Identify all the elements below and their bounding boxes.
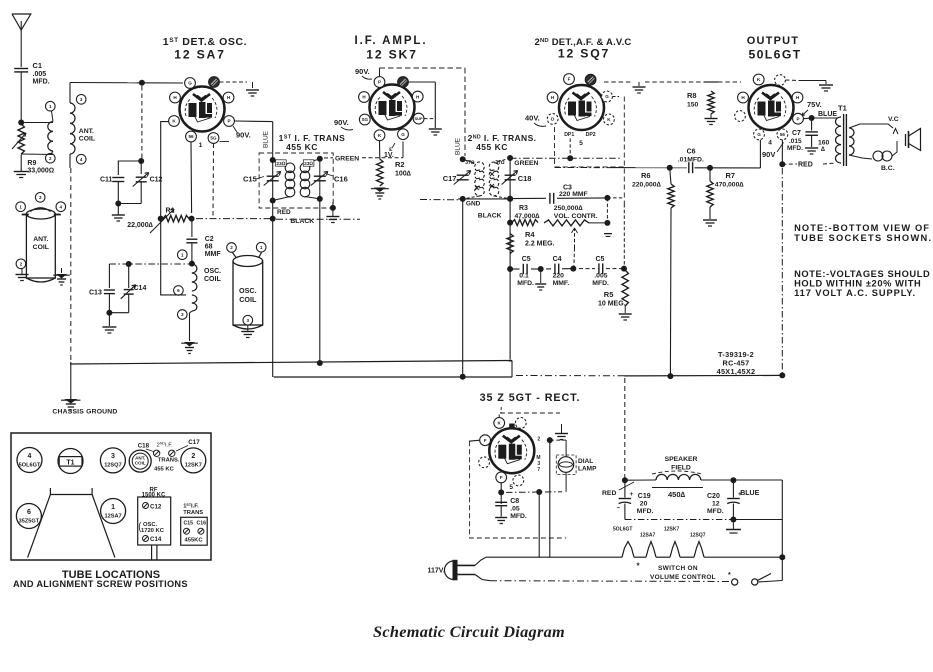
wire (GREEN dash) <box>324 142 403 159</box>
label R1 <box>127 208 174 230</box>
capacitor C6 <box>667 162 693 173</box>
node 1 (ant coil) <box>46 101 56 121</box>
ground (osc canister) <box>241 332 254 338</box>
svg-text:220: 220 <box>553 273 565 280</box>
svg-text:AND ALIGNMENT SCREW POSITIONS: AND ALIGNMENT SCREW POSITIONS <box>13 579 188 589</box>
T1 primary <box>836 117 842 163</box>
title 1st det <box>163 36 247 62</box>
wire <box>272 122 274 377</box>
speaker cone <box>906 129 921 151</box>
svg-text:220,000∆: 220,000∆ <box>632 182 662 189</box>
svg-text:MFD.: MFD. <box>707 508 724 515</box>
node (1st IF sec bottom) <box>317 159 323 202</box>
pin DP (12SQ7 left) <box>547 114 558 125</box>
title output <box>747 35 802 62</box>
svg-text:COIL: COIL <box>79 136 95 143</box>
wire (avc right dash) <box>607 198 624 223</box>
pin F (35Z5GT bottom) <box>496 472 507 483</box>
svg-text:3: 3 <box>111 453 115 460</box>
svg-text:GREEN: GREEN <box>335 156 359 163</box>
pin 3 (canister) <box>35 193 45 203</box>
socket 3 12SQ7 <box>100 448 125 473</box>
svg-text:455 KC: 455 KC <box>286 142 318 152</box>
svg-text:T1: T1 <box>838 104 847 113</box>
label 23ohm right <box>303 160 314 167</box>
screw C17 <box>169 450 175 456</box>
wire (grid up) <box>759 140 761 168</box>
svg-text:40V.: 40V. <box>525 114 540 123</box>
svg-text:75V.: 75V. <box>807 100 822 109</box>
svg-text:FIELD: FIELD <box>671 465 691 472</box>
svg-text:90V: 90V <box>762 150 775 159</box>
pin P (12SA7) <box>224 116 235 127</box>
svg-text:.005: .005 <box>33 71 47 78</box>
svg-text:C19: C19 <box>638 493 651 500</box>
svg-text:BLUE: BLUE <box>740 490 759 497</box>
capacitor C16 (trimmer) <box>311 172 348 186</box>
capacitor C12 (trimmer) <box>133 173 163 204</box>
svg-text:R4: R4 <box>525 230 535 239</box>
label fil 12SK7 <box>664 527 680 533</box>
wire <box>161 213 186 295</box>
label C18 loc <box>138 443 154 452</box>
wire (field feed dash) <box>622 378 628 483</box>
svg-text:SPEAKER: SPEAKER <box>665 456 698 463</box>
label C2 <box>205 236 222 258</box>
svg-text:3: 3 <box>39 195 42 200</box>
label B.C. <box>881 165 895 172</box>
capacitor C15 (trimmer) <box>243 172 281 186</box>
1st IF secondary <box>300 159 320 199</box>
pin F (35Z5GT left) <box>480 435 491 446</box>
svg-text:R8: R8 <box>687 91 697 100</box>
svg-text:12SA7: 12SA7 <box>640 533 656 539</box>
label R3 <box>515 205 541 220</box>
pin D2 (35Z5GT) <box>479 457 490 468</box>
svg-text:2NDI.F.: 2NDI.F. <box>157 442 174 449</box>
label C5a <box>517 256 534 287</box>
wire <box>106 310 128 326</box>
pin K (12SK7) <box>374 130 385 141</box>
svg-text:F: F <box>500 475 503 480</box>
svg-text:R7: R7 <box>726 171 736 180</box>
ground (canister left) <box>16 269 29 281</box>
label ANT. COIL <box>79 128 95 143</box>
svg-text:5: 5 <box>579 140 583 147</box>
svg-text:1: 1 <box>19 204 22 209</box>
wire <box>498 483 504 504</box>
wire (green to DP1) <box>510 157 568 159</box>
svg-text:47,000∆: 47,000∆ <box>515 213 541 220</box>
svg-text:∆: ∆ <box>821 146 825 153</box>
rect shield box (dashed) <box>470 407 566 538</box>
svg-text:1: 1 <box>181 252 184 257</box>
svg-text:220 MMF: 220 MMF <box>559 191 588 198</box>
svg-text:6: 6 <box>177 288 180 293</box>
pin H (50L6GT left) <box>738 92 749 103</box>
label 1st IF trans <box>279 133 346 152</box>
label 90V (12SA7) <box>220 126 251 142</box>
capacitor C19 <box>617 480 634 519</box>
wire (lamp dash) <box>506 489 562 495</box>
speaker field coil <box>652 471 702 480</box>
svg-text:C14: C14 <box>134 285 147 292</box>
wire <box>190 311 192 341</box>
pin G (12SK7) <box>398 129 409 140</box>
caption TUBE LOCATIONS <box>13 569 188 589</box>
speaker outline <box>28 488 115 558</box>
svg-text:2: 2 <box>49 156 52 161</box>
capacitor C20 <box>727 480 742 519</box>
svg-text:C2: C2 <box>205 236 214 243</box>
oscillator coil <box>192 264 197 311</box>
node 3 (ant coil) <box>76 95 86 105</box>
pin H (12SK7 right) <box>412 91 423 102</box>
node (AVC junction) <box>270 216 276 222</box>
wire <box>69 154 71 168</box>
label C20 <box>707 493 724 515</box>
label C5b <box>592 256 609 287</box>
svg-text:C1: C1 <box>33 61 43 70</box>
svg-text:7: 7 <box>537 467 540 473</box>
svg-text:1: 1 <box>49 104 52 109</box>
label 37ohm left <box>465 160 479 190</box>
pin 1 (osc canister) <box>256 242 266 252</box>
B- rail <box>274 374 512 380</box>
svg-text:BLACK: BLACK <box>478 213 502 220</box>
label C7 <box>787 130 803 152</box>
label fil 50L6GT <box>613 527 632 533</box>
label 37ohm right <box>490 160 505 188</box>
svg-text:4: 4 <box>80 157 83 162</box>
svg-text:68: 68 <box>205 244 213 251</box>
wire (rail dash mid) <box>516 375 624 377</box>
capacitor C8 <box>495 502 507 516</box>
label OSC 1720KC <box>139 522 164 534</box>
ground (R7) <box>703 207 717 226</box>
ground (12SA7 Sn) <box>246 90 259 96</box>
label C1 <box>33 61 50 86</box>
svg-text:C17: C17 <box>443 174 457 183</box>
resistor R8 <box>704 82 718 114</box>
label 90V (output) <box>762 143 784 160</box>
svg-text:R2: R2 <box>395 160 405 169</box>
pin H (12SA7 left) <box>170 92 181 103</box>
svg-text:T1: T1 <box>66 460 74 467</box>
wire (to C16 gnd) <box>320 199 336 216</box>
tube U1 12SA7 <box>180 87 225 132</box>
resistor R6 <box>668 168 674 208</box>
filament 50L6GT <box>622 542 646 558</box>
svg-text:2.2 MEG.: 2.2 MEG. <box>525 241 555 248</box>
wire <box>549 440 551 557</box>
svg-text:45X1,45X2: 45X1,45X2 <box>717 367 756 376</box>
svg-text:23Ω: 23Ω <box>276 161 285 167</box>
wire <box>695 165 761 171</box>
svg-text:G: G <box>401 132 405 137</box>
svg-text:C6: C6 <box>687 149 696 156</box>
ground (50L6GT K) <box>819 85 833 91</box>
resistor R1 <box>150 209 195 233</box>
capacitor C7 <box>805 118 818 147</box>
tube locations box <box>11 433 211 560</box>
resistor R2 <box>377 159 383 186</box>
wire <box>247 326 249 332</box>
svg-text:C18: C18 <box>138 443 150 450</box>
asterisk <box>636 562 640 571</box>
svg-text:COIL: COIL <box>204 276 221 283</box>
label BLACK (1st IF) <box>290 218 314 225</box>
wire (5G dash) <box>212 144 215 217</box>
svg-text:37Ω: 37Ω <box>465 160 475 166</box>
svg-text:ANT.: ANT. <box>33 236 48 243</box>
label 1 (12SA7) <box>199 142 203 149</box>
svg-text:37Ω: 37Ω <box>495 160 505 166</box>
svg-text:*: * <box>728 572 731 579</box>
svg-text:.01MFD.: .01MFD. <box>678 157 704 164</box>
wire (padder dash-dot) <box>109 261 194 267</box>
label R2 <box>395 160 412 178</box>
svg-text:56: 56 <box>780 132 786 137</box>
svg-text:I.F. AMPL.: I.F. AMPL. <box>355 35 428 47</box>
svg-text:10 MEG.: 10 MEG. <box>598 301 626 308</box>
svg-text:V.C: V.C <box>888 116 899 123</box>
label R9 <box>27 160 54 175</box>
svg-text:C16: C16 <box>197 521 207 527</box>
node (1st IF sec top) <box>317 156 323 162</box>
svg-text:4: 4 <box>768 140 772 147</box>
pin P (12SK7) <box>374 77 385 88</box>
svg-text:C13: C13 <box>89 290 102 297</box>
svg-text:~: ~ <box>617 505 621 512</box>
svg-text:NOTE:-VOLTAGES SHOULD: NOTE:-VOLTAGES SHOULD <box>794 269 930 279</box>
wire <box>509 158 511 199</box>
pin 5G (12SA7) <box>208 133 219 144</box>
resistor R7 <box>707 168 713 207</box>
capacitor C2 <box>186 219 197 262</box>
svg-text:1: 1 <box>260 245 263 250</box>
wire (filter gnd) <box>625 517 782 523</box>
label 75V <box>802 100 822 116</box>
wire (heater dash top) <box>604 81 741 83</box>
label OSC. COIL (canister) <box>239 286 257 304</box>
svg-text:117 VOLT A.C. SUPPLY.: 117 VOLT A.C. SUPPLY. <box>794 288 916 298</box>
wire <box>804 115 837 121</box>
svg-text:C4: C4 <box>553 256 562 263</box>
label DIAL LAMP <box>578 458 597 473</box>
ground (C11 C12) <box>112 215 125 221</box>
label C3 <box>559 185 588 199</box>
label fil 12SQ7 <box>690 533 706 539</box>
osc coil canister <box>233 253 263 330</box>
label C19 <box>637 493 654 515</box>
wire <box>70 83 137 104</box>
svg-text:455 KC: 455 KC <box>476 142 508 152</box>
svg-text:C20: C20 <box>707 493 720 500</box>
socket 2 12SK7 <box>181 448 206 473</box>
svg-text:100∆: 100∆ <box>395 171 412 178</box>
svg-text:1: 1 <box>199 142 203 149</box>
wire <box>379 141 381 159</box>
svg-text:BLACK: BLACK <box>290 218 314 225</box>
svg-text:5: 5 <box>509 484 513 491</box>
label SPEAKER FIELD <box>665 456 698 472</box>
label C15 C16 loc <box>184 521 207 527</box>
pin G (50L6GT) <box>754 129 765 140</box>
ground (R5) <box>619 306 632 320</box>
pin top (35Z5GT) <box>515 418 526 429</box>
chassis ground <box>61 399 81 410</box>
svg-text:NOTE:-BOTTOM VIEW OF: NOTE:-BOTTOM VIEW OF <box>794 223 930 233</box>
svg-text:BLUE: BLUE <box>263 130 270 148</box>
pin H (12SK7 left) <box>359 92 370 103</box>
ground (rect top) <box>550 424 568 440</box>
label R7 <box>715 171 745 189</box>
wire (plate rail) <box>555 167 688 169</box>
pin 2 (canister) <box>16 259 26 269</box>
svg-text:OSC.: OSC. <box>239 286 257 295</box>
svg-text:6: 6 <box>27 509 31 516</box>
svg-text:VOL. CONTR.: VOL. CONTR. <box>554 213 598 220</box>
wire stubs <box>152 545 157 560</box>
svg-text:4: 4 <box>28 453 32 460</box>
svg-text:1720 KC: 1720 KC <box>141 528 165 534</box>
pin K (12SA7) <box>169 116 180 127</box>
label 90V (12SK7 SG) <box>334 118 353 130</box>
node 4 (ant coil) <box>76 154 86 164</box>
node 3 (osc coil) <box>178 310 188 320</box>
svg-text:23Ω: 23Ω <box>304 161 313 167</box>
svg-text:50L6GT: 50L6GT <box>748 48 801 62</box>
svg-text:12SQ7: 12SQ7 <box>104 463 121 469</box>
svg-text:3: 3 <box>80 97 83 102</box>
svg-text:DP1: DP1 <box>564 132 574 138</box>
label T-39319-2 <box>717 350 756 376</box>
wire (P to top dash) <box>380 68 466 77</box>
wire (avc dash down) <box>623 204 625 266</box>
label TRANS 455KC <box>154 458 180 473</box>
label 2nd IF trans <box>468 133 537 152</box>
wire <box>779 480 785 581</box>
capacitor C14 (trimmer) <box>121 264 147 313</box>
svg-text:1STI.F.: 1STI.F. <box>183 503 199 510</box>
pin 3 (osc canister) <box>243 315 253 325</box>
svg-text:MFD.: MFD. <box>592 280 609 287</box>
ground (C4 junction) <box>535 269 546 290</box>
pin G (12SQ7) <box>602 91 613 102</box>
svg-text:ANT.: ANT. <box>79 128 94 135</box>
svg-text:MMF: MMF <box>205 251 222 258</box>
svg-text:20: 20 <box>640 501 648 508</box>
wire <box>137 80 183 86</box>
svg-text:2: 2 <box>20 262 23 267</box>
svg-text:5G: 5G <box>210 136 217 141</box>
label GREEN (1st IF) <box>335 156 359 163</box>
node (1st IF pri bottom) <box>270 198 276 204</box>
label BLUE (2nd IF) <box>455 137 462 155</box>
svg-text:GND: GND <box>466 201 481 208</box>
socket 4 50L6GT <box>17 448 42 473</box>
title rect <box>480 392 581 404</box>
wire <box>408 82 435 128</box>
label DP1 DP2 <box>564 132 596 147</box>
svg-text:.005: .005 <box>594 273 607 280</box>
pin K (50L6GT) <box>753 74 764 85</box>
svg-text:HOLD WITHIN ±20% WITH: HOLD WITHIN ±20% WITH <box>794 279 921 289</box>
label 1V <box>384 152 394 159</box>
wire <box>118 158 144 175</box>
dial lamp <box>556 440 576 492</box>
capacitor C4 <box>546 264 576 275</box>
svg-text:3: 3 <box>181 312 184 317</box>
pin Sn (12SQ7) <box>585 74 596 85</box>
resistor R5 <box>622 270 628 306</box>
node (2nd IF sec top) <box>507 155 513 161</box>
svg-text:5OL6GT: 5OL6GT <box>613 527 632 533</box>
capacitor C18 (trimmer) <box>502 171 532 185</box>
node (2nd IF pri top) <box>460 156 466 162</box>
node <box>507 266 513 272</box>
label 40V <box>525 114 546 127</box>
label SWITCH <box>650 565 731 581</box>
wire <box>161 122 174 213</box>
capacitor C11 <box>100 177 124 204</box>
svg-text:C18: C18 <box>518 174 532 183</box>
svg-text:B.C.: B.C. <box>881 165 895 172</box>
ground mark (pot) <box>604 234 612 237</box>
resistor R3 <box>507 220 538 226</box>
label RED (output) <box>798 162 813 169</box>
B- rail right <box>624 373 782 379</box>
filament 12SA7 <box>646 542 670 558</box>
title 2nd det <box>534 37 631 61</box>
pin K (35Z5GT) <box>494 418 505 429</box>
wire <box>462 199 464 377</box>
svg-text:C5: C5 <box>522 256 531 263</box>
svg-text:1V.: 1V. <box>384 152 394 159</box>
node 6 (osc coil) <box>174 286 184 296</box>
svg-text:250,000∆: 250,000∆ <box>554 205 584 212</box>
svg-text:G: G <box>188 81 192 86</box>
wire <box>469 428 485 441</box>
B- bar <box>726 520 741 534</box>
svg-text:CHASSIS GROUND: CHASSIS GROUND <box>52 409 117 416</box>
transformer T1 core <box>838 104 847 167</box>
svg-text:OUTPUT: OUTPUT <box>747 35 799 47</box>
wire <box>669 208 672 376</box>
label 4 (50L6GT) <box>768 140 772 147</box>
black key (35Z5GT) <box>509 424 515 429</box>
node (2nd IF sec bottom) <box>507 196 513 202</box>
svg-text:455 KC: 455 KC <box>154 467 174 473</box>
svg-text:.05: .05 <box>510 506 520 513</box>
label V.C <box>888 116 899 123</box>
wire (SUP return) <box>420 199 458 201</box>
svg-text:R6: R6 <box>641 171 651 180</box>
pin F (12SQ7) <box>564 74 575 85</box>
wire <box>509 199 511 360</box>
resistor R9 <box>12 124 26 154</box>
capacitor C1 <box>14 69 28 123</box>
node <box>547 437 553 443</box>
svg-text:C17: C17 <box>188 439 200 446</box>
antenna <box>12 14 31 67</box>
svg-text:VOLUME CONTROL: VOLUME CONTROL <box>650 574 716 581</box>
svg-text:2: 2 <box>191 453 195 460</box>
pin 1 (canister) <box>16 202 26 212</box>
1st IF shield box (dashed) <box>259 153 333 208</box>
svg-text:MMF.: MMF. <box>553 280 570 287</box>
